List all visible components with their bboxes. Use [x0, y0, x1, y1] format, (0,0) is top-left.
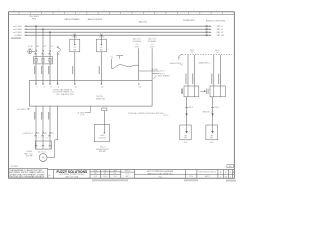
relay K1	[70, 35, 80, 52]
ground pit box left	[180, 125, 191, 140]
wire N	[25, 34, 210, 36]
device box SV1	[207, 86, 226, 97]
svg-text:ANGLE SPEED: ANGLE SPEED	[88, 18, 103, 21]
svg-text:SAC CPL: SAC CPL	[133, 37, 141, 40]
svg-text:TYP 3: TYP 3	[163, 115, 169, 117]
svg-text:PRLMP: PRLMP	[99, 151, 107, 153]
svg-text:+CDM DS-1: +CDM DS-1	[22, 133, 34, 135]
starter terminal box	[35, 136, 52, 149]
labels below ground boxes	[184, 142, 214, 144]
wire phase C	[49, 32, 51, 50]
notes box	[9, 168, 48, 178]
svg-text:+E.TB21 SPARE: +E.TB21 SPARE	[155, 75, 171, 78]
svg-text:COIL A1: COIL A1	[98, 137, 106, 140]
svg-text:A 1 MF: A 1 MF	[26, 155, 33, 158]
coil M	[28, 50, 35, 54]
zone ticks	[19, 12, 222, 15]
bus right labels	[216, 26, 225, 37]
pencil correction wavy wire	[112, 59, 139, 69]
leader +E bottom left	[17, 108, 30, 111]
svg-text:JW: JW	[94, 173, 97, 175]
contactor M contacts	[34, 50, 51, 54]
wire K1 down	[74, 52, 76, 85]
drawing title	[147, 170, 174, 175]
svg-text:GP2: GP2	[210, 142, 214, 144]
phase drop wires	[36, 26, 50, 50]
faint print marks below border	[92, 179, 236, 181]
svg-text:AS 1: AS 1	[126, 175, 130, 178]
svg-text:DT: DT	[104, 173, 106, 175]
wire L2	[25, 28, 210, 30]
svg-text:10-6: 10-6	[103, 176, 106, 178]
svg-text:SAC CPL: SAC CPL	[148, 37, 156, 40]
svg-text:ANGLE LOCAL CASE 750: ANGLE LOCAL CASE 750	[148, 172, 173, 175]
wire T3	[49, 54, 51, 84]
wire L1	[25, 25, 210, 27]
bus left arrowheads	[25, 26, 27, 36]
actuator dashes	[36, 137, 50, 139]
overload relay OL	[34, 57, 53, 64]
ground pit box right	[206, 125, 218, 140]
enclosure text 1	[53, 88, 75, 96]
svg-text:(4): (4)	[44, 133, 47, 135]
svg-text:1: 1	[48, 177, 49, 179]
svg-text:+TB1 GD: +TB1 GD	[216, 35, 225, 37]
svg-text:M: M	[42, 157, 44, 160]
left small cell text	[48, 175, 51, 179]
wire T1	[35, 54, 37, 84]
coil labels	[28, 46, 34, 50]
svg-text:+TB1 L2: +TB1 L2	[216, 29, 225, 31]
column header labels	[29, 16, 225, 23]
notes text rows	[10, 169, 45, 179]
terminal clamps	[35, 83, 139, 84]
junction dots	[35, 25, 102, 36]
svg-text:(6): (6)	[51, 133, 54, 135]
flex conductor squiggle	[57, 46, 60, 54]
svg-text:(2): (2)	[37, 133, 40, 135]
svg-text:10-4: 10-4	[94, 176, 97, 178]
zone numbers above strip	[13, 10, 218, 12]
wire K2 down	[100, 52, 102, 85]
svg-text:MCB: MCB	[73, 36, 78, 38]
lower phase wires	[36, 106, 58, 140]
motor label block	[24, 151, 33, 158]
svg-text:GP1: GP1	[184, 142, 188, 144]
svg-text:+TB1 L3: +TB1 L3	[216, 32, 225, 34]
svg-text:MAIN 480: MAIN 480	[96, 98, 106, 101]
svg-text:FAN FORWARD: FAN FORWARD	[65, 18, 81, 21]
svg-text:SL.TL.OL: SL.TL.OL	[38, 151, 47, 153]
spare wire labels	[133, 37, 157, 48]
svg-text:MCB: MCB	[99, 36, 104, 38]
label near right of spares	[170, 62, 182, 65]
svg-text:ANY CITY USA: ANY CITY USA	[66, 175, 79, 178]
svg-text:SHT 1: SHT 1	[205, 176, 212, 178]
svg-text:LUG: LUG	[80, 115, 85, 117]
lower wire labels vertical	[34, 112, 49, 120]
drop wire labels	[188, 107, 220, 109]
disconnect contacts row2	[34, 132, 51, 136]
leader lines to labels	[139, 71, 160, 73]
zone strip line	[9, 13, 235, 15]
rev cell	[125, 171, 130, 179]
wire spare 1	[138, 48, 140, 80]
bus left labels	[13, 26, 22, 37]
wire phase A	[35, 26, 37, 50]
motor M1	[39, 154, 47, 162]
dwg no cell	[199, 171, 217, 178]
solenoid pair wires	[188, 55, 221, 86]
svg-text:OF: OF	[225, 176, 227, 178]
pilot light tab	[102, 108, 107, 111]
svg-text:+E.CBE3: +E.CBE3	[17, 109, 26, 111]
svg-text:CKT 15A 480V 3PH: CKT 15A 480V 3PH	[56, 93, 74, 96]
extra faint left label	[11, 37, 21, 39]
mini table texts	[93, 169, 117, 178]
pilot light box	[94, 124, 109, 141]
terminal strip enclosure box	[29, 80, 152, 106]
svg-text:DWG NO E-750-C1: DWG NO E-750-C1	[199, 171, 217, 173]
svg-text:NOTES:: NOTES:	[11, 166, 19, 168]
svg-text:RL: RL	[114, 173, 116, 175]
svg-text:AMAZONS_1: AMAZONS_1	[199, 61, 212, 64]
svg-text:NOTE ALL WIRING PER NEC ART 43: NOTE ALL WIRING PER NEC ART 430	[128, 112, 164, 115]
svg-text:10-9: 10-9	[114, 176, 117, 178]
bus lines	[25, 26, 210, 35]
wire spare 2	[151, 48, 153, 80]
title block	[48, 170, 235, 179]
relay K2	[96, 35, 106, 52]
wire GND drop	[57, 55, 59, 85]
svg-text:+TB1 L1: +TB1 L1	[216, 26, 225, 28]
svg-text:1: 1	[220, 176, 221, 178]
size cells	[220, 171, 235, 174]
field wiring dashed line	[178, 55, 232, 59]
svg-text:SAC-750: SAC-750	[138, 20, 147, 23]
svg-text:SJ44 AM5: SJ44 AM5	[148, 40, 157, 43]
sheet tab	[227, 165, 234, 168]
contact labels row1	[37, 46, 54, 48]
border frame	[9, 12, 235, 178]
label at enclosure corner	[153, 75, 170, 79]
T ground symbol	[116, 56, 123, 59]
svg-text:SH1: SH1	[228, 166, 232, 168]
down arrowheads	[185, 113, 213, 116]
svg-text:SJ43 AM4: SJ43 AM4	[133, 40, 142, 43]
wire tag label columns	[185, 74, 219, 85]
long note line	[128, 112, 164, 115]
bus right terminators	[206, 25, 208, 36]
enclosure text 2	[96, 96, 106, 101]
svg-text:w/GND: w/GND	[15, 35, 22, 37]
svg-text:w/L3 480: w/L3 480	[13, 32, 22, 34]
svg-text:SOME FWD: SOME FWD	[183, 20, 195, 22]
leader +E under box	[85, 106, 91, 113]
wires to terminal strip	[36, 54, 58, 84]
wire to pilot	[103, 111, 105, 125]
svg-text:A 1 5: A 1 5	[160, 69, 164, 72]
wire number labels vertical	[34, 66, 100, 74]
svg-text:ANGLE_1: ANGLE_1	[203, 111, 213, 114]
solenoid SV1 labels	[190, 50, 220, 54]
wire L3	[25, 31, 210, 33]
svg-text:+E.SAC: +E.SAC	[151, 68, 158, 71]
wire phase B	[42, 29, 44, 50]
svg-text:10-12: 10-12	[125, 173, 129, 175]
device drop wires	[185, 97, 214, 125]
svg-text:GROUND BUS TERMINATION EACH: GROUND BUS TERMINATION EACH	[10, 176, 45, 179]
wire T2	[42, 54, 44, 84]
device box PR1	[181, 86, 199, 97]
arrow between devices	[200, 90, 206, 92]
svg-text:ANGLE SPD 1: ANGLE SPD 1	[170, 62, 182, 65]
svg-text:5 HP: 5 HP	[41, 161, 46, 163]
svg-text:1: 1	[230, 176, 231, 178]
svg-text:ANGLE LIGHT TRIG: ANGLE LIGHT TRIG	[206, 20, 226, 23]
terminal numbers	[36, 87, 141, 89]
svg-text:w/L1 480: w/L1 480	[13, 26, 22, 28]
motor ground loop wire	[47, 140, 58, 158]
svg-text:w/L2 480: w/L2 480	[13, 29, 22, 31]
